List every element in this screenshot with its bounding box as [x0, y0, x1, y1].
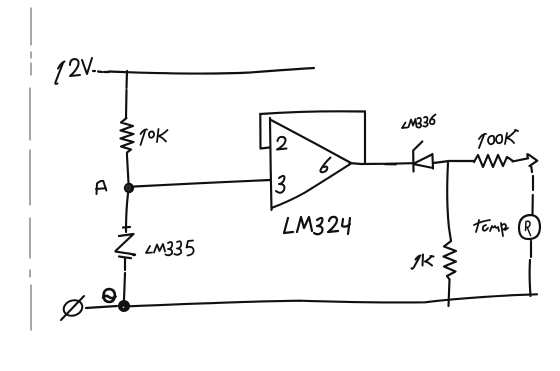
ground node junction dot	[118, 300, 130, 312]
wire diode to junction	[434, 161, 450, 163]
label 10k	[141, 129, 168, 145]
diode D1 LM335 temperature sensor	[116, 227, 136, 258]
resistor R1 10k	[121, 118, 134, 156]
wire feedback right down to output	[364, 112, 366, 164]
pin 6 label	[320, 158, 330, 173]
label 100K	[479, 130, 518, 148]
wire R1 to node A	[127, 156, 129, 183]
wire node A down to LM335	[126, 194, 128, 233]
resistor R3 100k	[474, 155, 513, 167]
pin 2 label	[277, 137, 287, 150]
label A	[96, 181, 106, 194]
junction wire down to R2	[447, 163, 451, 241]
op-amp U1 top edge	[270, 120, 351, 164]
op-amp U1 left edge	[270, 118, 272, 210]
wire feedback loop pin2	[260, 115, 269, 149]
wire phi to ground node	[86, 306, 117, 308]
node B symbol (circled)	[103, 289, 116, 302]
pin 3 label	[276, 176, 284, 193]
label 1k	[412, 255, 434, 269]
label LM324	[284, 217, 350, 234]
wire node A to op-amp pin3	[135, 180, 271, 187]
label temp	[474, 220, 508, 236]
wire junction to R3	[449, 160, 474, 162]
meter letter R	[526, 221, 531, 235]
resistor R2 1k	[444, 241, 457, 280]
wire R3 to arrow	[513, 158, 529, 161]
wire R2 to ground rail	[449, 280, 450, 307]
wire op-amp output	[350, 163, 414, 164]
wire LM335 to ground node	[124, 259, 125, 301]
page fold dashed line left edge	[30, 8, 31, 330]
meter M1	[519, 215, 540, 239]
label LM336	[402, 115, 436, 129]
label LM335	[146, 241, 194, 256]
op-amp U1 bottom edge	[272, 164, 352, 209]
arrow head	[527, 154, 537, 166]
wire 12V rail to R1	[126, 71, 127, 118]
diode D2 LM336	[413, 142, 422, 172]
wire meter to ground rail	[530, 241, 531, 296]
wire arrow down to meter	[531, 167, 533, 214]
wire ground rail	[130, 294, 537, 306]
wire +12V rail	[93, 68, 314, 74]
label 12V	[55, 58, 92, 84]
wire feedback top	[260, 111, 365, 114]
label ground phi	[61, 296, 84, 320]
node A junction dot	[124, 183, 134, 193]
